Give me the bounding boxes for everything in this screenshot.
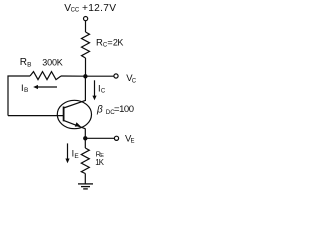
label beta DC = 100 [96, 104, 134, 116]
transistor Q1 collector lead [64, 100, 86, 108]
current arrow IE [65, 143, 69, 163]
wire emitter to emitter node [84, 129, 86, 139]
label VE [125, 133, 135, 144]
svg-text:K: K [117, 38, 123, 48]
terminal Vc [114, 74, 118, 78]
svg-text:C: C [132, 78, 137, 84]
svg-text:=100: =100 [114, 104, 134, 115]
label Rc=2K [96, 38, 123, 49]
wire emitter node to RE [84, 138, 86, 148]
resistor Rc [82, 32, 90, 58]
wire emitter node to VE terminal [85, 137, 114, 139]
svg-text:K: K [99, 158, 105, 167]
current arrow Ic [92, 80, 96, 100]
label Ic [98, 83, 106, 94]
node emitter junction dot [83, 136, 87, 140]
svg-text:B: B [24, 87, 28, 94]
current arrow IB [33, 85, 57, 89]
node collector junction dot [83, 74, 87, 78]
wire RB to collector node [61, 75, 85, 77]
transistor Q1 circle [57, 100, 91, 128]
label RB [20, 57, 32, 68]
wire collector node to Vc terminal [85, 75, 114, 77]
wire left corner from base to RB [8, 76, 30, 116]
terminal VE [114, 136, 118, 140]
label IE [72, 149, 80, 160]
wire Rc to collector node [85, 58, 87, 76]
svg-text:β: β [96, 105, 103, 116]
svg-text:K: K [57, 58, 63, 68]
transistor Q1 emitter lead with arrow [64, 120, 86, 128]
svg-text:B: B [27, 61, 31, 68]
node Vcc supply label +12.7V [64, 3, 116, 14]
label RE [96, 149, 105, 159]
svg-text:E: E [74, 153, 79, 160]
svg-text:R: R [20, 57, 27, 68]
svg-text:+12.7V: +12.7V [82, 3, 116, 14]
label Vc [126, 73, 137, 84]
resistor RE [81, 148, 89, 174]
svg-text:E: E [131, 138, 135, 144]
wire collector node down to transistor collector [84, 76, 86, 101]
wire RE to ground [84, 174, 86, 184]
svg-text:=: = [107, 38, 112, 48]
wire Vcc terminal to Rc [85, 21, 87, 32]
resistor RB [30, 72, 61, 80]
ground [78, 184, 93, 189]
wire base lead [8, 115, 64, 117]
terminal Vcc [84, 17, 88, 21]
svg-text:CC: CC [71, 7, 80, 13]
label IB [21, 83, 28, 94]
svg-text:C: C [101, 88, 106, 94]
transistor Q1 base bar [63, 107, 65, 122]
